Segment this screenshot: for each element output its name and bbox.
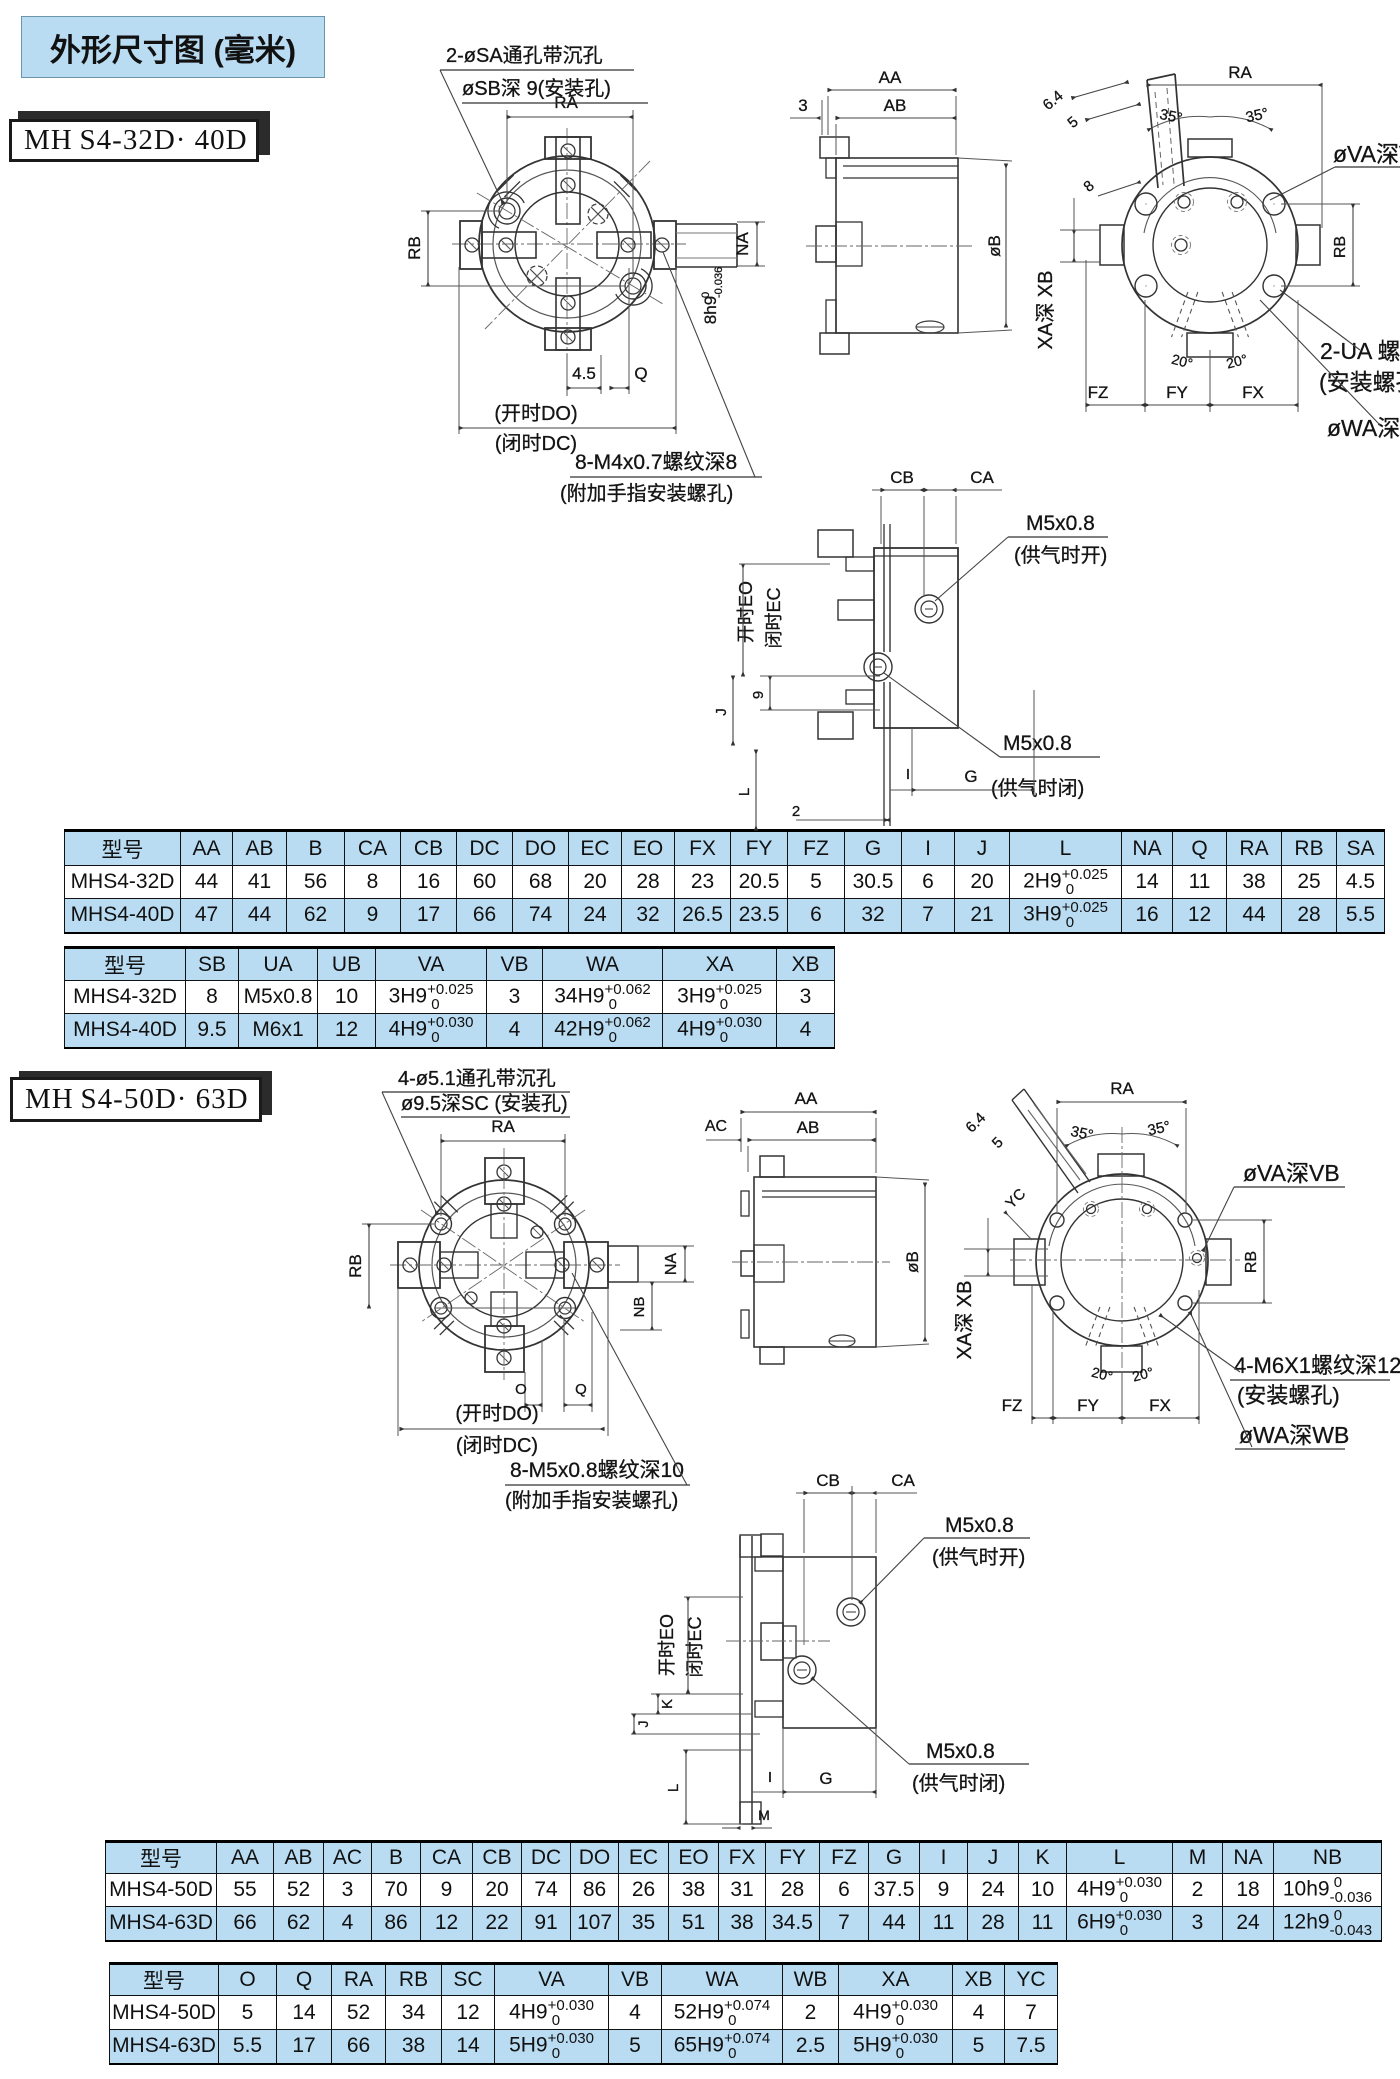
svg-text:ø9.5深SC (安装孔): ø9.5深SC (安装孔) [401, 1092, 568, 1115]
svg-text:M5x0.8: M5x0.8 [945, 1514, 1014, 1537]
svg-text:8-M5x0.8螺纹深10: 8-M5x0.8螺纹深10 [510, 1459, 684, 1482]
svg-text:开时EO: 开时EO [657, 1614, 677, 1676]
svg-text:开时EO: 开时EO [736, 581, 756, 643]
svg-text:øSB深 9(安装孔): øSB深 9(安装孔) [462, 77, 611, 100]
svg-text:35°: 35° [1244, 105, 1270, 126]
svg-text:(开时DO): (开时DO) [455, 1402, 538, 1425]
svg-text:M5x0.8: M5x0.8 [1026, 512, 1095, 535]
svg-text:CA: CA [891, 1471, 915, 1490]
svg-text:J: J [635, 1721, 651, 1728]
svg-text:øWA深2: øWA深2 [1327, 415, 1400, 441]
svg-text:I: I [906, 766, 910, 783]
svg-text:AB: AB [797, 1118, 820, 1137]
svg-text:(闭时DC): (闭时DC) [456, 1434, 538, 1457]
svg-text:(供气时闭): (供气时闭) [991, 777, 1084, 800]
svg-text:AA: AA [879, 68, 902, 87]
svg-text:35°: 35° [1069, 1123, 1095, 1144]
svg-text:(供气时开): (供气时开) [932, 1546, 1025, 1569]
svg-text:35°: 35° [1158, 106, 1184, 127]
svg-text:øWA深WB: øWA深WB [1239, 1422, 1349, 1448]
svg-text:L: L [736, 788, 753, 796]
svg-text:FY: FY [1166, 383, 1188, 402]
svg-text:øB: øB [903, 1251, 922, 1273]
svg-text:RB: RB [1332, 236, 1349, 258]
svg-text:4-M6X1螺纹深12: 4-M6X1螺纹深12 [1234, 1353, 1400, 1378]
svg-text:0: 0 [700, 292, 712, 298]
svg-text:5: 5 [989, 1134, 1007, 1152]
svg-text:FY: FY [1077, 1396, 1099, 1415]
svg-text:20°: 20° [1170, 351, 1194, 372]
svg-text:闭时EC: 闭时EC [764, 587, 784, 648]
svg-text:(闭时DC): (闭时DC) [495, 432, 577, 455]
svg-text:M5x0.8: M5x0.8 [1003, 732, 1072, 755]
svg-text:-0.036: -0.036 [713, 267, 725, 298]
svg-text:AC: AC [705, 1118, 727, 1135]
svg-text:AA: AA [795, 1089, 818, 1108]
svg-text:6.4: 6.4 [962, 1109, 989, 1136]
svg-text:RA: RA [1228, 63, 1252, 82]
svg-text:8h9: 8h9 [701, 296, 720, 324]
svg-text:FX: FX [1242, 383, 1264, 402]
svg-text:Q: Q [575, 1381, 587, 1398]
svg-text:4-ø5.1通孔带沉孔: 4-ø5.1通孔带沉孔 [398, 1067, 556, 1090]
svg-text:35°: 35° [1146, 1118, 1172, 1139]
svg-text:Q: Q [634, 364, 647, 383]
svg-text:J: J [713, 708, 730, 716]
svg-text:2-øSA通孔带沉孔: 2-øSA通孔带沉孔 [446, 44, 603, 67]
svg-text:RB: RB [346, 1254, 365, 1278]
svg-text:(开时DO): (开时DO) [494, 402, 577, 425]
svg-text:5: 5 [1064, 113, 1081, 131]
svg-text:FZ: FZ [1088, 383, 1109, 402]
svg-text:2: 2 [792, 803, 800, 820]
svg-text:M5x0.8: M5x0.8 [926, 1740, 995, 1763]
svg-text:I: I [768, 1769, 772, 1786]
svg-text:AB: AB [884, 96, 907, 115]
svg-text:8-M4x0.7螺纹深8: 8-M4x0.7螺纹深8 [575, 451, 737, 474]
svg-text:K: K [659, 1699, 676, 1709]
svg-text:øVA深V: øVA深V [1333, 141, 1400, 167]
svg-text:9: 9 [750, 691, 767, 699]
svg-text:NA: NA [733, 232, 752, 256]
svg-text:4.5: 4.5 [572, 364, 596, 383]
svg-text:(安装螺孔): (安装螺孔) [1237, 1383, 1340, 1408]
svg-text:O: O [515, 1381, 527, 1398]
svg-text:3: 3 [798, 96, 807, 115]
svg-text:20°: 20° [1131, 1364, 1155, 1385]
svg-text:CA: CA [970, 468, 994, 487]
svg-text:øVA深VB: øVA深VB [1243, 1160, 1340, 1186]
svg-text:(供气时开): (供气时开) [1014, 544, 1107, 567]
svg-text:RA: RA [491, 1117, 515, 1136]
svg-text:6.4: 6.4 [1040, 87, 1067, 113]
svg-text:2-UA 螺纹: 2-UA 螺纹 [1320, 338, 1400, 364]
svg-text:8: 8 [1080, 177, 1097, 195]
svg-text:RA: RA [1110, 1079, 1134, 1098]
svg-text:G: G [964, 767, 977, 786]
svg-text:M: M [758, 1807, 770, 1823]
svg-text:RB: RB [405, 236, 424, 260]
svg-text:20°: 20° [1225, 351, 1249, 372]
svg-text:RB: RB [1243, 1251, 1260, 1273]
svg-text:XA深 XB: XA深 XB [1034, 271, 1057, 350]
svg-text:G: G [819, 1769, 832, 1788]
svg-text:(安装螺孔: (安装螺孔 [1319, 369, 1400, 395]
svg-text:NA: NA [663, 1253, 680, 1276]
svg-text:XA深 XB: XA深 XB [953, 1281, 976, 1360]
svg-text:CB: CB [890, 468, 914, 487]
svg-text:L: L [665, 1784, 682, 1792]
svg-text:(供气时闭): (供气时闭) [912, 1772, 1005, 1795]
svg-text:20°: 20° [1090, 1364, 1114, 1385]
svg-text:(附加手指安装螺孔): (附加手指安装螺孔) [560, 482, 733, 505]
svg-text:FX: FX [1149, 1396, 1171, 1415]
svg-text:CB: CB [816, 1471, 840, 1490]
svg-text:FZ: FZ [1002, 1396, 1023, 1415]
svg-text:(附加手指安装螺孔): (附加手指安装螺孔) [505, 1489, 678, 1512]
svg-text:øB: øB [985, 235, 1004, 257]
svg-text:YC: YC [1002, 1185, 1029, 1212]
svg-text:NB: NB [631, 1297, 648, 1318]
